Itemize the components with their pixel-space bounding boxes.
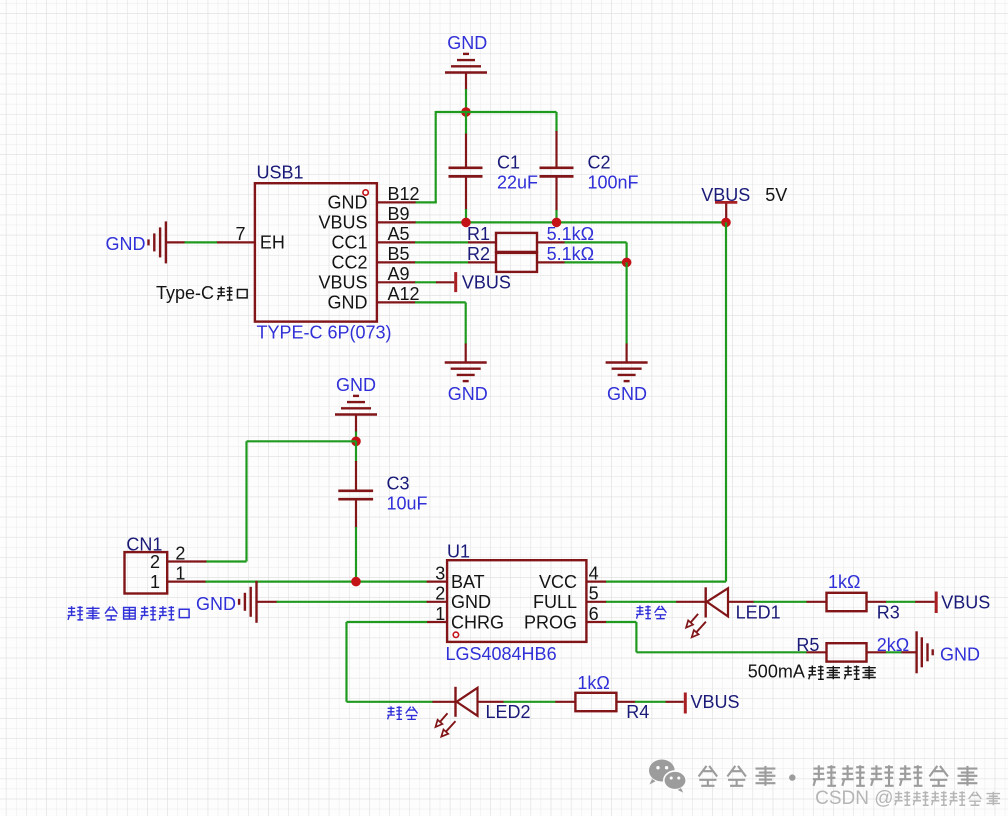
svg-text:A9: A9 [388,264,410,284]
pin 2 of CN1 [167,544,206,564]
svg-text:R4: R4 [626,702,649,722]
wire CN1 pin2 horizontal [206,560,247,562]
svg-text:A12: A12 [388,284,420,304]
ground flag GND (U1 GND pin) [196,581,278,623]
svg-text:4: 4 [589,563,599,583]
wire R3 to VBUS flag [886,601,916,603]
wire VBUS column [725,222,727,581]
connector USB1 TYPE-C [255,163,392,343]
label battery interface [68,606,190,620]
svg-text:A5: A5 [388,224,410,244]
wire A12 to ground [415,301,466,303]
ground GND (below R1R2) [606,344,648,404]
svg-text:GND: GND [448,384,488,404]
wire VCC to VBUS column [606,580,726,582]
svg-text:GND: GND [940,645,980,665]
svg-text:EH: EH [260,233,285,253]
IC U1 LGS4084HB6 [446,542,587,665]
power flag GND (top) [445,33,487,90]
wire GND-top to junction [465,89,467,112]
svg-text:2: 2 [175,544,185,564]
label green light [387,706,417,720]
wire FULL to LED1 [606,601,677,603]
label Type-C interface [156,283,247,303]
capacitor C2 [540,112,639,222]
ground flag GND (right of R5) [902,631,981,673]
svg-text:GND: GND [328,293,368,313]
ground GND (below USB1) [445,344,488,404]
svg-text:LGS4084HB6: LGS4084HB6 [446,644,557,664]
svg-text:10uF: 10uF [387,494,428,514]
svg-text:500mA: 500mA [748,662,805,682]
svg-text:VBUS: VBUS [462,272,511,292]
resistor R3 1k [807,572,900,622]
label 500mA constant current [748,662,876,682]
svg-text:GND: GND [451,592,491,612]
svg-text:C2: C2 [588,152,611,172]
pin 7 EH of USB1 [216,224,285,253]
svg-text:VBUS: VBUS [941,593,990,613]
svg-text:VBUS: VBUS [318,273,367,293]
svg-text:B9: B9 [388,204,410,224]
svg-text:5.1kΩ: 5.1kΩ [547,244,594,264]
resistor R2 5.1k [467,244,594,272]
pin 2 GND of U1 [427,584,491,613]
svg-text:VBUS: VBUS [691,692,740,712]
pin 6 PROG of U1 [524,604,607,633]
svg-text:5: 5 [589,584,599,604]
pin 5 FULL of U1 [533,584,607,613]
wire B12 vertical riser [435,111,437,202]
power flag GND (above C3) [335,375,377,433]
pin 1 of CN1 [167,564,206,584]
pin marker circle CHRG [453,632,458,637]
svg-text:C1: C1 [497,152,520,172]
svg-text:CC1: CC1 [331,233,367,253]
wire CHRG down [345,622,347,702]
svg-text:Type-C: Type-C [156,283,214,303]
svg-text:3: 3 [435,563,445,583]
svg-text:2: 2 [435,584,445,604]
svg-text:GND: GND [106,234,146,254]
svg-text:LED1: LED1 [736,602,781,622]
node junction BAT/C3 [351,577,361,587]
pin 3 BAT of U1 [427,563,485,592]
wire B9 VBUS bus [415,221,726,223]
wire LED1 to R3 [754,601,808,603]
svg-text:U1: U1 [447,542,470,562]
LED1 emission arrows [686,614,706,637]
power flag VBUS 5V (top) [701,185,787,223]
wire R4 to VBUS flag [635,701,666,703]
node junction VBUS top [721,218,731,228]
power flag VBUS (right of R4) [666,692,740,714]
svg-text:USB1: USB1 [257,163,304,183]
wire B5 to R2 [415,261,469,263]
svg-text:TYPE-C 6P(073): TYPE-C 6P(073) [257,322,392,342]
connector CN1 battery [125,535,168,594]
svg-text:PROG: PROG [524,612,577,632]
wire PROG right [606,621,636,623]
wire R1R2 junction down to ground [625,262,627,344]
wire B12 horizontal [415,201,437,203]
LED2 emission arrows [436,713,456,736]
pin marker circle B12 [363,190,368,195]
wire CHRG to LED2 [347,701,433,703]
wire R5 to GND flag [886,651,902,653]
svg-text:1: 1 [175,564,185,584]
wire CN1 vertical [245,441,247,561]
svg-text:LED2: LED2 [486,702,531,722]
svg-text:6: 6 [589,604,599,624]
svg-text:FULL: FULL [533,592,577,612]
resistor R4 1k [555,673,649,722]
svg-text:R3: R3 [877,602,900,622]
pin A12 GND of USB1 [328,284,420,313]
svg-text:1: 1 [150,572,160,592]
svg-text:7: 7 [235,224,245,244]
svg-text:GND: GND [607,384,647,404]
wire GND flag to U1 [277,601,428,603]
node junction C1/C2/GND top [461,107,471,117]
pin A9 VBUS of USB1 [318,264,415,293]
svg-text:GND: GND [328,193,368,213]
pin B5 CC2 of USB1 [331,244,415,273]
svg-text:5.1kΩ: 5.1kΩ [547,224,594,244]
pin A5 CC1 of USB1 [331,224,415,253]
wire A5 to R1 [415,241,469,243]
watermark text line 1 [699,765,978,786]
wire PROG to R5 [636,651,807,653]
capacitor C3 [338,441,427,581]
wire PROG down [635,622,637,652]
pin B12 GND of USB1 [328,184,420,213]
svg-text:1kΩ: 1kΩ [577,673,609,693]
LED LED1 [676,587,780,622]
node junction C3 top [351,437,361,447]
svg-text:2: 2 [150,552,160,572]
wire LED2 to R4 [504,701,556,703]
svg-text:R2: R2 [467,244,490,264]
svg-text:1: 1 [435,604,445,624]
wire GND flag to junction [355,432,357,442]
svg-text:CHRG: CHRG [451,612,504,632]
label red light [636,606,666,620]
svg-text:VBUS: VBUS [318,213,367,233]
wire junction to CN1 corner [247,440,357,442]
node junction R1/R2 [622,258,632,268]
pin B9 VBUS of USB1 [318,204,415,233]
power flag VBUS (pin A9) [415,272,511,292]
node junction C1 bottom [461,218,471,228]
svg-text:R5: R5 [796,635,819,655]
watermark wechat icon [649,760,686,793]
pin 1 CHRG of U1 [427,604,504,633]
wire A12 down [465,302,467,344]
pin 4 VCC of U1 [539,563,607,592]
svg-text:VCC: VCC [539,572,577,592]
watermark text line 2 CSDN [815,788,1000,809]
svg-text:CC2: CC2 [331,253,367,273]
svg-text:5V: 5V [765,185,787,205]
svg-text:1kΩ: 1kΩ [828,572,860,592]
svg-text:22uF: 22uF [497,173,538,193]
svg-text:CSDN @: CSDN @ [815,788,893,809]
node junction C2 bottom [552,218,562,228]
svg-text:100nF: 100nF [588,173,639,193]
wire top horizontal C1-C2 [436,111,557,113]
wire pin7 to GND flag [185,241,218,243]
svg-text:BAT: BAT [451,572,485,592]
svg-text:GND: GND [196,594,236,614]
power flag VBUS (right of R3) [915,592,990,614]
wire R1 to corner [565,241,627,243]
svg-text:GND: GND [336,375,376,395]
LED LED2 [432,687,530,722]
svg-text:R1: R1 [467,224,490,244]
wire R1 corner down [625,242,627,262]
wire R2 to junction [565,261,627,263]
svg-text:B12: B12 [388,184,420,204]
capacitor C1 [449,112,539,222]
wire BAT bus [206,580,428,582]
svg-text:GND: GND [447,33,487,53]
ground flag GND (left of USB1) [106,221,186,263]
resistor R1 5.1k [467,224,594,252]
svg-text:C3: C3 [387,474,410,494]
svg-text:B5: B5 [388,244,410,264]
wire CHRG left [347,621,428,623]
resistor R5 2k [796,635,909,662]
